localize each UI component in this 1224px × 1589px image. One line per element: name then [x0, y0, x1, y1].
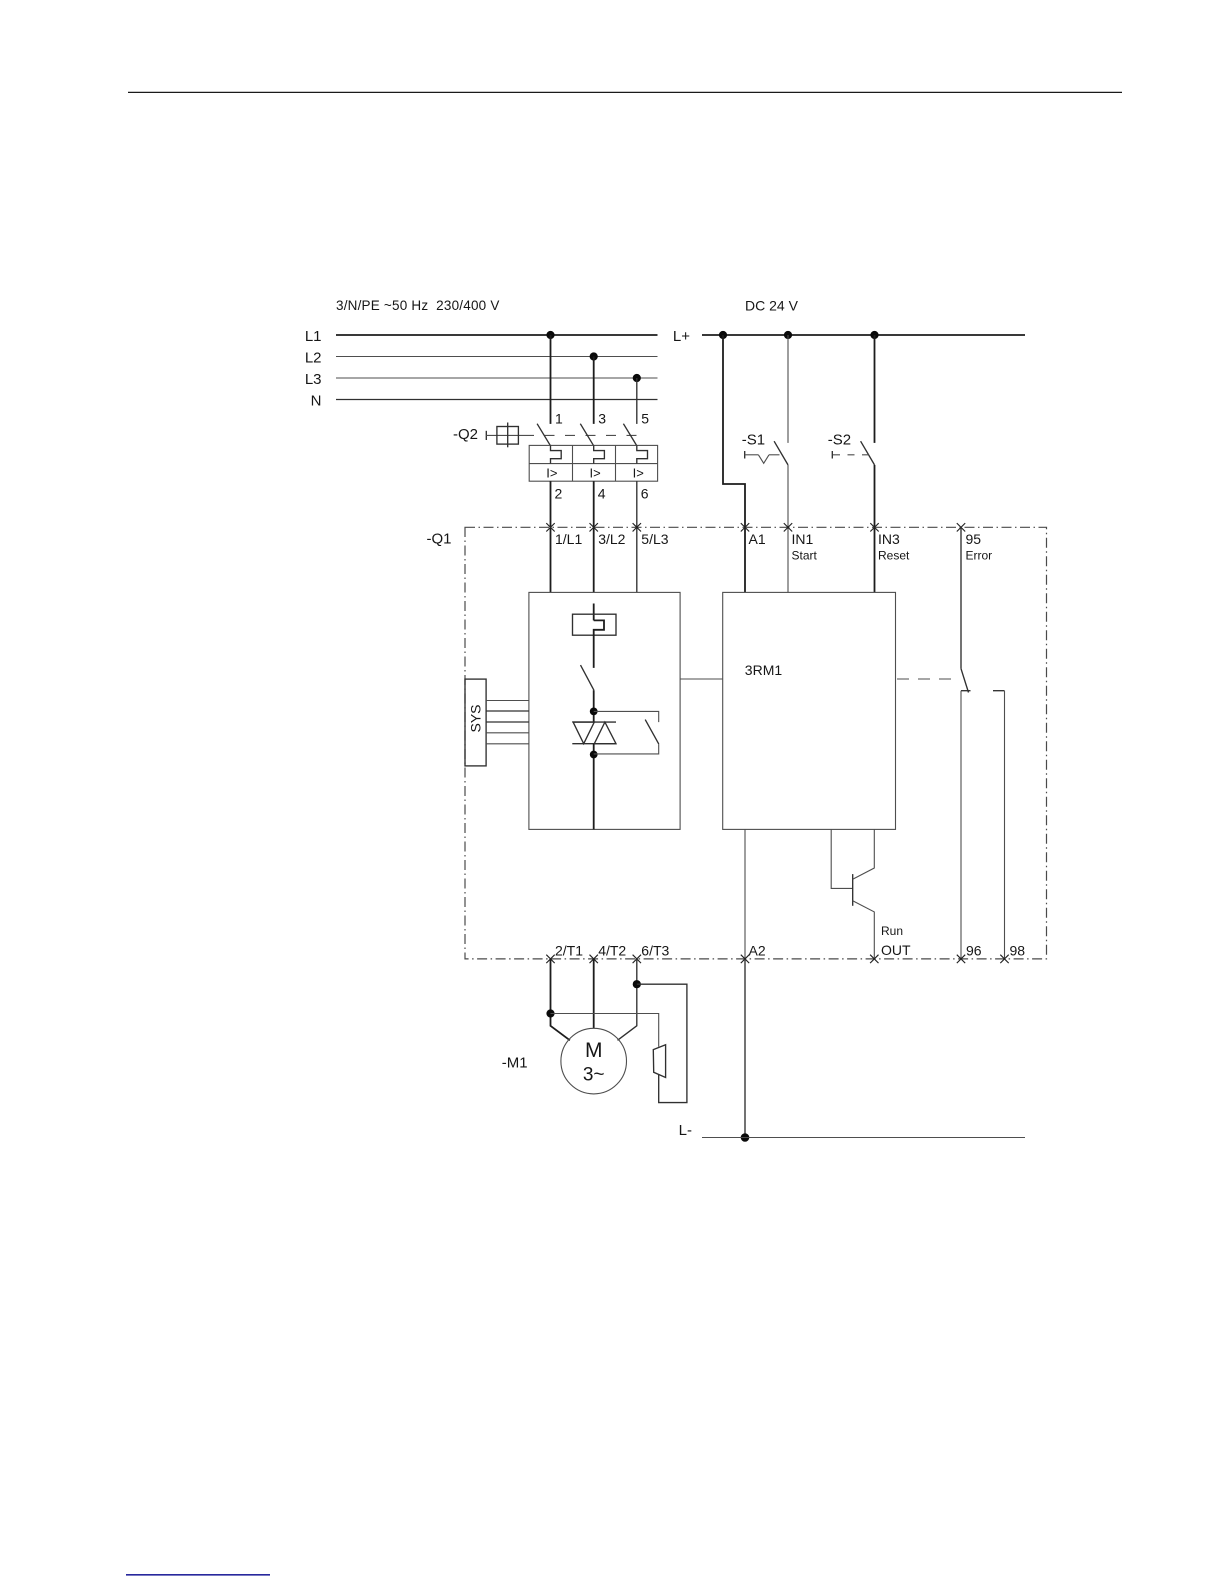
wire phase 3 breaker to Q1 — [636, 481, 638, 592]
wire 98 drop — [1004, 691, 1006, 959]
junction dot 6/T3 brake tap — [633, 980, 641, 988]
junction dot 2/T1 brake tap — [546, 1009, 554, 1017]
wire phase 2 breaker to Q1 — [593, 481, 595, 592]
transistor collector wire — [853, 829, 875, 879]
svg-text:6/T3: 6/T3 — [641, 942, 669, 958]
terminal cross 6/T3 — [633, 955, 641, 963]
breaker Q2 thermal element pole 1 — [551, 445, 562, 463]
triac top rail — [572, 721, 616, 723]
breaker Q2 overload box divider horizontal — [529, 463, 657, 465]
terminal cross 2/T1 — [546, 955, 554, 963]
svg-text:4/T2: 4/T2 — [598, 942, 626, 958]
switch S1 actuator link right — [769, 454, 780, 456]
error contact actuator dashed link — [897, 678, 958, 680]
junction dot L+ A1 tap — [719, 331, 727, 339]
svg-text:3: 3 — [598, 411, 606, 427]
breaker Q2 pole 2 blade — [580, 424, 593, 446]
wire phase 2 below triac — [593, 744, 595, 830]
terminal cross 3/L2 — [590, 523, 598, 531]
wire A2 drop inside box — [744, 829, 746, 959]
wire phase 1 breaker to Q1 — [550, 481, 552, 592]
terminal cross 96 — [957, 955, 965, 963]
wire IN3 lower drop — [874, 465, 876, 593]
bypass contact bottom link — [594, 744, 659, 754]
power section box of Q1 — [529, 592, 680, 829]
breaker Q2 actuator tick — [485, 431, 487, 440]
svg-text:-S1: -S1 — [742, 431, 765, 448]
breaker Q2 overload box divider left — [572, 445, 574, 481]
svg-text:5/L3: 5/L3 — [641, 531, 668, 547]
terminal cross 5/L3 — [633, 523, 641, 531]
terminal cross OUT — [870, 955, 878, 963]
SYS connector box — [465, 679, 486, 766]
svg-text:Reset: Reset — [878, 549, 910, 563]
switch S1 blade — [774, 441, 788, 465]
wire A1 drop — [723, 335, 745, 592]
junction dot L+ IN1 tap — [784, 331, 792, 339]
wire rail L+ — [702, 334, 1025, 336]
svg-text:N: N — [311, 392, 322, 409]
breaker Q2 pole 1 blade — [537, 424, 550, 446]
terminal cross 95 — [957, 523, 965, 531]
wire link between power and control boxes — [680, 678, 723, 680]
switch S1 actuator link left — [745, 454, 759, 456]
wire rail N — [336, 399, 658, 401]
svg-text:5: 5 — [641, 411, 649, 427]
error contact NC stub — [961, 690, 971, 692]
terminal cross IN3 — [870, 523, 878, 531]
wire IN3 upper drop — [874, 335, 876, 443]
wire IN1 upper drop — [787, 335, 789, 443]
svg-text:I>: I> — [590, 466, 601, 481]
brake trapezoid — [653, 1045, 665, 1078]
transistor emitter wire — [853, 901, 875, 959]
breaker Q2 actuator link solid — [486, 434, 524, 436]
svg-text:3/N/PE ~50 Hz 230/400 V: 3/N/PE ~50 Hz 230/400 V — [336, 298, 500, 313]
switch S2 blade — [861, 441, 875, 465]
svg-text:IN1: IN1 — [792, 531, 814, 547]
svg-text:IN3: IN3 — [878, 531, 900, 547]
svg-text:3RM1: 3RM1 — [745, 662, 783, 678]
svg-text:95: 95 — [966, 531, 982, 547]
bottom page rule (blue) — [126, 1574, 270, 1576]
wire A1 inside control box region — [744, 591, 746, 593]
switch S2 actuator tick — [831, 451, 833, 459]
svg-text:I>: I> — [546, 466, 557, 481]
svg-text:96: 96 — [966, 942, 982, 958]
svg-text:98: 98 — [1010, 942, 1026, 958]
svg-text:A1: A1 — [749, 531, 766, 547]
breaker Q2 overload box divider right — [615, 445, 617, 481]
wire rail L1 — [336, 334, 658, 336]
measuring element wire notch — [594, 620, 604, 668]
switch S1 pushbutton notch — [758, 455, 769, 464]
junction dot L+ IN3 tap — [870, 331, 878, 339]
svg-text:L2: L2 — [305, 349, 322, 366]
svg-text:A2: A2 — [749, 942, 766, 958]
svg-text:Error: Error — [966, 549, 993, 563]
wire rail L- — [702, 1137, 1025, 1139]
triac right thyristor triangle — [594, 722, 616, 744]
svg-text:SYS: SYS — [468, 704, 484, 732]
svg-text:1/L1: 1/L1 — [555, 531, 582, 547]
breaker Q2 pole 3 blade — [623, 424, 636, 446]
svg-text:Start: Start — [792, 549, 818, 563]
error contact 95 wire — [960, 527, 962, 668]
breaker Q2 actuator link dashed — [524, 434, 637, 436]
transistor base drive wire — [831, 829, 853, 888]
SYS bus line 3 — [486, 721, 529, 723]
bypass contact top link — [594, 711, 659, 722]
terminal cross A2 — [741, 955, 749, 963]
error contact blade — [961, 669, 969, 693]
wire A2 to L- — [744, 959, 746, 1138]
wire phase 2 to triac node — [593, 690, 595, 722]
top page rule — [128, 91, 1122, 93]
breaker Q2 thermal element pole 3 — [637, 445, 648, 463]
wire 6/T3 to motor — [618, 959, 637, 1040]
svg-text:-M1: -M1 — [502, 1055, 528, 1072]
breaker Q2 mechanism box — [497, 427, 519, 445]
svg-text:-Q2: -Q2 — [453, 426, 478, 443]
svg-text:M: M — [585, 1039, 603, 1062]
SYS bus line 5 — [486, 743, 529, 745]
wire 2/T1 to motor — [551, 959, 570, 1040]
svg-text:OUT: OUT — [881, 942, 911, 958]
svg-text:-Q1: -Q1 — [426, 531, 451, 548]
svg-text:2: 2 — [555, 485, 563, 501]
terminal cross 98 — [1000, 955, 1008, 963]
transistor base bar — [852, 874, 854, 906]
terminal cross IN1 — [784, 523, 792, 531]
breaker Q2 overload box — [529, 445, 657, 481]
wire phase 2 inside power box upper — [593, 604, 595, 621]
SYS bus line 4 — [486, 732, 529, 734]
SYS bus line 1 — [486, 700, 529, 702]
svg-text:L+: L+ — [673, 328, 690, 345]
switch S1 actuator tick — [744, 451, 746, 459]
control section box of Q1 (3RM1) — [723, 592, 896, 829]
junction dot L3 tap — [633, 374, 641, 382]
svg-text:3~: 3~ — [583, 1065, 605, 1086]
svg-text:DC 24 V: DC 24 V — [745, 298, 799, 314]
bypass contact blade — [645, 720, 659, 745]
svg-text:I>: I> — [633, 466, 644, 481]
SYS bus line 2 — [486, 710, 529, 712]
junction dot L1 tap — [546, 331, 554, 339]
breaker Q2 thermal element pole 2 — [594, 445, 605, 463]
wire rail L2 — [336, 356, 658, 358]
svg-text:1: 1 — [555, 411, 563, 427]
wire phase 3 drop to breaker — [636, 378, 638, 424]
svg-text:6: 6 — [641, 485, 649, 501]
svg-text:-S2: -S2 — [828, 431, 851, 448]
wire phase 1 drop to breaker — [550, 335, 552, 424]
measuring element rectangle — [573, 614, 617, 635]
wire rail L3 — [336, 377, 658, 379]
error contact NO stub — [993, 690, 1005, 692]
device Q1 dash-dot enclosure — [465, 527, 1047, 959]
breaker Q2 mechanism box vertical bar — [507, 423, 509, 448]
junction dot L2 tap — [590, 352, 598, 360]
triac left thyristor triangle — [573, 722, 594, 744]
brake branch top wire from 2/T1 — [551, 1014, 659, 1047]
wire phase 2 drop to breaker — [593, 357, 595, 424]
brake branch bottom wire — [637, 984, 687, 1102]
svg-text:4: 4 — [598, 485, 606, 501]
switch S2 actuator dashed link — [833, 454, 869, 456]
svg-text:L-: L- — [679, 1122, 692, 1139]
svg-text:L1: L1 — [305, 328, 322, 345]
internal relay contact blade — [581, 665, 594, 690]
svg-text:L3: L3 — [305, 371, 322, 388]
terminal cross 4/T2 — [590, 955, 598, 963]
junction dot triac bottom — [590, 751, 598, 759]
junction dot triac top — [590, 708, 598, 716]
wire 96 drop — [960, 691, 962, 959]
svg-text:Run: Run — [881, 924, 903, 938]
wire 4/T2 to motor — [593, 959, 595, 1028]
motor M1 circle — [561, 1028, 627, 1094]
terminal cross A1 — [741, 523, 749, 531]
svg-text:2/T1: 2/T1 — [555, 942, 583, 958]
wire IN1 lower drop — [787, 465, 789, 593]
junction dot A2 on L- — [741, 1133, 750, 1142]
triac bottom rail — [572, 743, 616, 745]
svg-text:3/L2: 3/L2 — [598, 531, 625, 547]
terminal cross 1/L1 — [546, 523, 554, 531]
